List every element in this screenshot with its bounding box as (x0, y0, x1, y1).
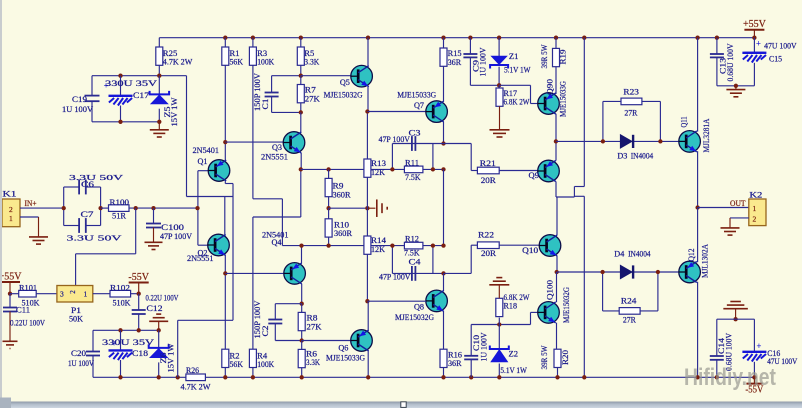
svg-text:Q12: Q12 (687, 249, 696, 262)
wire to R21 (444, 143, 472, 145)
svg-text:R18: R18 (504, 301, 518, 310)
wire Q3 base (225, 141, 283, 143)
zener Z2 (498, 325, 500, 349)
junction C3 right (441, 141, 445, 145)
wire biasb-top (93, 329, 159, 331)
svg-text:12K: 12K (371, 245, 385, 254)
wire Q5 base (301, 75, 351, 77)
left edge (0, 0, 2, 398)
transistor Q2 (198, 244, 208, 246)
junction C4 right (441, 271, 445, 275)
svg-text:C20: C20 (71, 349, 86, 358)
svg-text:1U 100V: 1U 100V (68, 359, 94, 368)
svg-text:R100: R100 (110, 198, 130, 207)
svg-text:K2: K2 (749, 190, 762, 199)
junction Q3 emitter node (299, 167, 303, 171)
junction C17-bottom (118, 120, 122, 124)
svg-text:R8: R8 (307, 314, 318, 323)
svg-text:360R: 360R (334, 229, 353, 238)
wire emitters-return (176, 375, 180, 379)
svg-text:1: 1 (9, 214, 13, 223)
svg-text:R12: R12 (405, 234, 419, 243)
svg-text:Q8: Q8 (414, 303, 424, 312)
wire to R22 (444, 272, 472, 274)
capacitor C17 (118, 74, 122, 78)
svg-text:C3: C3 (409, 129, 421, 138)
svg-text:36R: 36R (448, 58, 462, 67)
wire column mid (443, 169, 445, 245)
wire Q2 emitter (224, 197, 226, 235)
svg-text:MJE15032G: MJE15032G (562, 287, 571, 323)
svg-text:1U 100V: 1U 100V (62, 105, 93, 114)
capacitor C100 (151, 206, 155, 210)
ground R17 (490, 130, 510, 137)
resistor R19 (554, 36, 558, 40)
diode D4 (600, 270, 604, 274)
svg-text:R23: R23 (623, 88, 639, 97)
wire D3 net (556, 140, 679, 142)
wire bias cell (470, 84, 499, 86)
wire bias-top (92, 75, 187, 77)
resistor R2 (222, 349, 229, 367)
resistor R10 (328, 208, 330, 219)
svg-text:C12: C12 (147, 304, 163, 313)
svg-text:2N5401: 2N5401 (193, 146, 220, 155)
svg-text:Q6: Q6 (338, 344, 348, 353)
resistor R4 (249, 349, 256, 367)
wire C6-C7 right (100, 187, 102, 226)
wire Q10 emitter (556, 256, 558, 272)
capacitor C9 (468, 36, 472, 40)
wire Q7 base (367, 111, 426, 113)
svg-text:MJE15033G: MJE15033G (326, 354, 365, 363)
svg-text:MJE15033G: MJE15033G (397, 91, 436, 100)
junctions R11 (390, 167, 394, 171)
wire fb net bottom (282, 245, 443, 247)
wire Q90-Q9 (555, 114, 557, 161)
wire Q11 collector (695, 36, 699, 40)
capacitor C15 (753, 38, 755, 53)
svg-text:510K: 510K (113, 299, 131, 308)
wire K1 pin1 (20, 216, 39, 218)
svg-text:2: 2 (753, 215, 757, 224)
svg-text:50K: 50K (69, 315, 83, 324)
svg-text:12K: 12K (371, 168, 385, 177)
svg-text:0.68U 100V: 0.68U 100V (726, 43, 735, 81)
svg-text:47P 100V: 47P 100V (160, 232, 192, 241)
svg-text:C4: C4 (409, 258, 421, 267)
potentiometer P1 (57, 286, 93, 303)
junction R10 bottom (326, 243, 330, 247)
power +55V (744, 29, 764, 31)
svg-text:1: 1 (753, 204, 757, 213)
junction input node (195, 206, 199, 210)
svg-text:R20: R20 (561, 350, 570, 365)
wire Q4 base (225, 272, 284, 274)
zener Z6 (158, 330, 160, 347)
svg-text:Z2: Z2 (509, 350, 519, 359)
svg-text:Q100: Q100 (545, 280, 554, 300)
svg-text:Hifidiy.net: Hifidiy.net (684, 364, 776, 391)
transistor Q90 (538, 93, 560, 115)
ground C12 inverted (149, 314, 168, 321)
wire Q90 base (499, 84, 530, 86)
svg-text:C7: C7 (81, 210, 94, 219)
svg-text:100K: 100K (257, 57, 274, 66)
wire R3 jog (253, 198, 283, 200)
capacitor C20 (92, 330, 94, 351)
resistor R16 (440, 349, 447, 367)
svg-text:7.5K: 7.5K (404, 249, 420, 258)
wire bias cell bottom (471, 324, 530, 326)
transistor Q10 (539, 235, 561, 257)
wire Q3 emitter (300, 153, 302, 170)
resistor R21 (471, 170, 477, 172)
wire Q6 emitter (367, 351, 369, 378)
capacitor C19 (91, 76, 93, 96)
resistor R12 (404, 242, 423, 249)
svg-text:330U 35V: 330U 35V (102, 338, 154, 347)
wire Q4 collector (301, 246, 303, 263)
svg-text:OUT: OUT (730, 199, 746, 208)
svg-text:IN4004: IN4004 (631, 152, 654, 161)
wire wiper (75, 254, 77, 286)
resistor R100 (101, 207, 109, 209)
svg-text:1U 100V: 1U 100V (479, 332, 488, 361)
resistor R25 (158, 38, 160, 47)
svg-text:56K: 56K (230, 360, 244, 369)
ground center wire (326, 206, 330, 210)
svg-text:MJL3281A: MJL3281A (702, 118, 711, 152)
svg-text:6.8K 2W: 6.8K 2W (504, 97, 530, 106)
svg-text:R22: R22 (478, 230, 494, 239)
wire supply cell bottom (717, 318, 755, 320)
power -55V (753, 377, 755, 383)
svg-text:4.7K 2W: 4.7K 2W (181, 383, 211, 392)
svg-text:27R: 27R (623, 315, 637, 324)
ground K1 (38, 217, 40, 237)
svg-text:R7: R7 (305, 86, 316, 95)
svg-text:MJE15032G: MJE15032G (395, 313, 434, 322)
capacitor C1 (271, 76, 273, 93)
svg-text:Q90: Q90 (545, 79, 554, 95)
wire Q8 collector (443, 273, 445, 291)
wire Q8 base (365, 299, 369, 303)
svg-text:D4: D4 (614, 250, 624, 259)
transistor Q12 (679, 261, 701, 283)
wire -55V bottom rail (93, 376, 754, 378)
svg-text:+55V: +55V (0, 272, 22, 283)
transistor Q6 (351, 330, 373, 352)
resistor R22 (471, 244, 477, 246)
ground C11 (3, 341, 18, 348)
transistor Q8 (426, 290, 448, 312)
wire supply cell top (717, 85, 755, 87)
svg-text:4.7K 2W: 4.7K 2W (163, 58, 193, 67)
power +55V left (0, 281, 20, 283)
wire Q8 emitter (443, 311, 445, 349)
svg-text:IN4004: IN4004 (628, 250, 651, 259)
transistor Q3 (283, 132, 305, 154)
junction Q3 base (223, 140, 227, 144)
resistor R6 (301, 341, 303, 350)
svg-text:3.3U 50V: 3.3U 50V (67, 234, 123, 243)
resistor R20 (554, 349, 561, 367)
wire long column bottom (574, 195, 584, 197)
wire Q10 collector (556, 197, 558, 235)
svg-text:C1: C1 (261, 99, 270, 110)
svg-text:3.3K: 3.3K (304, 57, 319, 66)
svg-text:C19: C19 (72, 95, 87, 104)
svg-text:-55V: -55V (128, 272, 149, 283)
wire Q7 emitter (443, 122, 445, 144)
capacitor C18 (118, 328, 122, 332)
wire Q12 emitter (697, 208, 699, 263)
junction OUT node (695, 205, 699, 209)
resistor R7 (299, 74, 303, 78)
wire D4 net (557, 271, 679, 273)
svg-text:47P 100V: 47P 100V (379, 273, 411, 282)
svg-text:Q1: Q1 (198, 157, 208, 166)
svg-text:20R: 20R (481, 249, 497, 258)
ground supply bottom inverted (723, 302, 748, 309)
svg-text:56K: 56K (230, 57, 244, 66)
wire Q100 emitter (556, 323, 558, 350)
ground center (377, 199, 387, 217)
junction Q4 base (223, 271, 227, 275)
svg-text:36R: 36R (448, 359, 462, 368)
svg-text:C2: C2 (261, 326, 270, 337)
svg-text:MJE15033G: MJE15033G (558, 81, 567, 117)
svg-text:MJE15032G: MJE15032G (324, 91, 363, 100)
svg-text:Z1: Z1 (509, 52, 519, 61)
ground K2 (721, 228, 740, 235)
junction R100-out (134, 206, 138, 210)
transistor Q11 (679, 131, 701, 153)
transistor Q9 (538, 160, 560, 182)
svg-text:R26: R26 (186, 366, 199, 375)
svg-text:3: 3 (60, 290, 64, 299)
svg-text:Q11: Q11 (679, 117, 688, 128)
zener Z5 (157, 74, 161, 78)
svg-text:27R: 27R (624, 109, 638, 118)
svg-text:15V 1W: 15V 1W (170, 97, 179, 126)
svg-text:Q10: Q10 (522, 246, 538, 255)
svg-text:39R 5W: 39R 5W (540, 345, 549, 369)
resistor R24 loop (602, 272, 604, 311)
svg-text:27K: 27K (305, 95, 320, 104)
wire OUT (698, 207, 749, 209)
svg-text:3.3K: 3.3K (306, 358, 320, 367)
capacitor C6 (64, 186, 79, 188)
svg-text:R13: R13 (371, 159, 386, 168)
svg-text:100K: 100K (257, 360, 274, 369)
svg-text:5.1V 1W: 5.1V 1W (500, 366, 527, 375)
capacitor C7 (64, 225, 79, 227)
resistor R3 (251, 36, 255, 40)
svg-text:K1: K1 (3, 190, 17, 199)
svg-text:+: + (756, 341, 761, 351)
junction R8 top (300, 302, 304, 306)
wire Q2 collector (224, 255, 226, 349)
capacitor C2 (275, 303, 301, 305)
resistor R23 loop (602, 101, 604, 141)
junction Q7 base node (365, 109, 369, 113)
wire Q4 emitter (301, 284, 303, 304)
svg-text:47U 100V: 47U 100V (764, 42, 797, 51)
scrollbar (0, 402, 802, 408)
transistor Q100 (538, 302, 560, 324)
svg-text:0.22U 100V: 0.22U 100V (146, 294, 179, 303)
wire K1 pin2 (20, 207, 64, 209)
svg-text:C15: C15 (769, 54, 782, 63)
capacitor C12 (138, 294, 140, 310)
capacitor C11 (9, 294, 11, 308)
junction R6 top (300, 338, 304, 342)
resistor R13 (366, 112, 368, 160)
ground bias-block (157, 120, 161, 124)
wire Q1 collector (224, 142, 226, 160)
wire Q9 emitter (555, 181, 557, 197)
ground supply top (734, 84, 738, 88)
svg-text:R11: R11 (405, 158, 419, 167)
wire Q5 emitter (367, 87, 369, 112)
svg-text:2: 2 (9, 205, 13, 214)
wire bias-bottom (92, 121, 159, 123)
svg-text:C17: C17 (133, 91, 149, 100)
svg-text:R9: R9 (333, 182, 344, 191)
svg-text:+: + (756, 39, 761, 49)
svg-text:330U 35V: 330U 35V (105, 79, 157, 88)
wire Q100 base (530, 312, 532, 324)
svg-text:C11: C11 (16, 306, 30, 315)
transistor Q7 (426, 101, 448, 123)
wire +55V top rail (159, 37, 754, 39)
transistor Q5 (351, 65, 373, 87)
ground C100 (145, 242, 163, 249)
wire Q6 base (302, 340, 351, 342)
svg-text:MJL1302A: MJL1302A (701, 244, 710, 278)
wire Q5 collector (366, 36, 370, 40)
resistor R26 (186, 374, 206, 381)
connector K1 (2, 199, 20, 227)
wire Q12 collector (697, 282, 699, 378)
wire Q6 collector (367, 301, 369, 330)
connector K2 (749, 199, 766, 226)
svg-text:C100: C100 (161, 223, 184, 232)
diode D3 (601, 139, 605, 143)
svg-text:2N5551: 2N5551 (261, 153, 288, 162)
wire C6-C7 left (63, 187, 65, 226)
svg-text:20R: 20R (481, 176, 497, 185)
resistor R14 (366, 208, 368, 236)
transistor Q1 (198, 170, 208, 172)
svg-text:7.5K: 7.5K (405, 173, 421, 182)
wire K2 pin2 (730, 217, 749, 219)
junction biasb-bottom (118, 375, 122, 379)
svg-text:2: 2 (69, 290, 77, 294)
transistor Q4 (284, 263, 306, 285)
svg-text:R14: R14 (371, 236, 386, 245)
svg-text:27K: 27K (307, 322, 322, 331)
svg-text:IN+: IN+ (25, 199, 37, 208)
svg-text:Q9: Q9 (529, 171, 540, 180)
resistor R5 (299, 36, 303, 40)
svg-text:51R: 51R (112, 212, 127, 221)
wire long column top (582, 36, 586, 40)
svg-text:R101: R101 (19, 284, 37, 293)
svg-text:R102: R102 (110, 284, 130, 293)
svg-text:Q4: Q4 (272, 238, 282, 247)
ground R18 inverted (489, 278, 509, 285)
junction R7 bottom (299, 110, 303, 114)
wire fb net top (301, 168, 444, 170)
svg-text:15V 1W: 15V 1W (166, 343, 175, 372)
resistor R101 (10, 293, 19, 295)
svg-text:47P 100V: 47P 100V (379, 135, 411, 144)
svg-text:1: 1 (84, 290, 88, 299)
resistor R18 (496, 298, 503, 316)
svg-text:C18: C18 (132, 349, 148, 358)
svg-text:Q7: Q7 (414, 101, 424, 110)
wire Q100 collector (556, 272, 558, 302)
resistor R15 (441, 36, 445, 40)
resistor R1 (223, 36, 227, 40)
svg-text:R21: R21 (480, 159, 496, 168)
capacitor C4 (392, 272, 443, 274)
wire bias-to-base (186, 76, 188, 197)
svg-text:3.3U 50V: 3.3U 50V (69, 173, 124, 182)
capacitor C14 (716, 319, 718, 356)
wire Q1 emitter (224, 181, 226, 183)
capacitor C13 (715, 36, 719, 40)
svg-text:2N5551: 2N5551 (187, 254, 214, 263)
junctions R12 (390, 243, 394, 247)
resistor R8 (301, 304, 303, 313)
resistor R9 (326, 167, 330, 171)
capacitor C16 (753, 319, 755, 351)
svg-text:R24: R24 (621, 296, 637, 305)
svg-text:360R: 360R (333, 191, 352, 200)
resistor R102 (93, 293, 110, 295)
wire Q11 emitter (697, 151, 699, 207)
wire base column (197, 171, 199, 246)
svg-text:R15: R15 (448, 49, 462, 58)
junction bias spread (554, 139, 558, 143)
power -55V mid (129, 282, 149, 284)
svg-text:D3: D3 (617, 152, 627, 161)
svg-text:39R 5W: 39R 5W (540, 44, 549, 68)
svg-text:0.22U 100V: 0.22U 100V (10, 319, 45, 328)
wire fb jog (300, 169, 302, 217)
capacitor C10 (469, 375, 473, 379)
zener Z1 (497, 36, 501, 40)
svg-text:R19: R19 (559, 50, 568, 65)
svg-text:+55V: +55V (743, 19, 767, 30)
svg-text:Q5: Q5 (340, 78, 350, 87)
svg-text:1U 100V: 1U 100V (479, 47, 488, 76)
svg-text:Q3: Q3 (272, 143, 282, 152)
resistor R11 (404, 166, 423, 173)
resistor R17 (498, 85, 500, 88)
capacitor C3 (392, 143, 443, 145)
svg-text:5.1V 1W: 5.1V 1W (504, 66, 531, 75)
